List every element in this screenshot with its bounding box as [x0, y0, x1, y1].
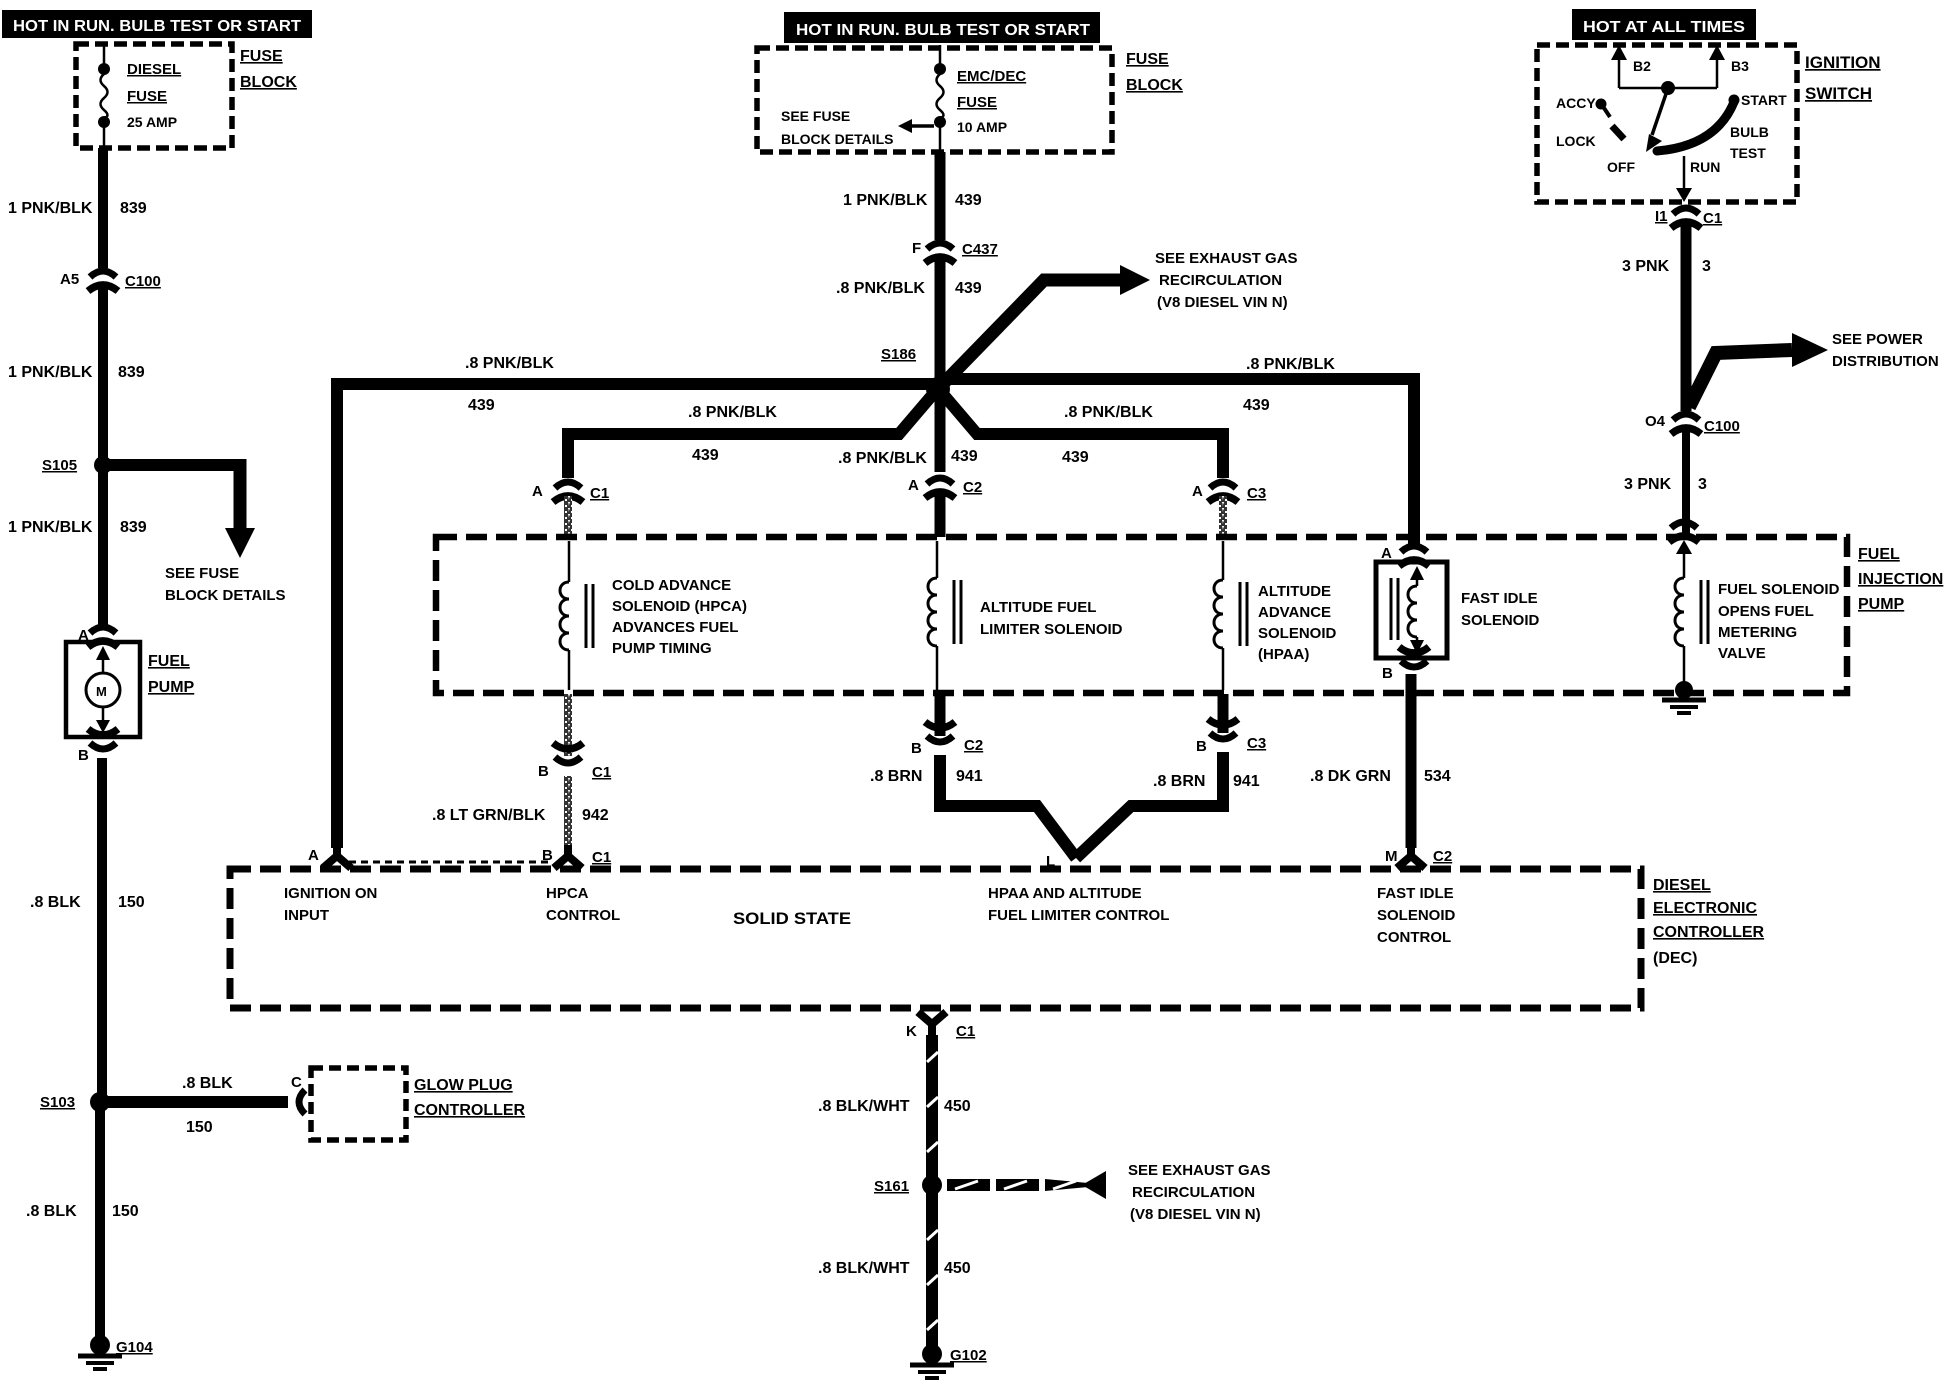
svg-text:1 PNK/BLK: 1 PNK/BLK [8, 364, 93, 381]
label fuel solenoid [1718, 581, 1840, 662]
svg-text:A: A [908, 477, 919, 494]
splice S161 [874, 1175, 942, 1195]
svg-text:HPAA AND ALTITUDE: HPAA AND ALTITUDE [988, 885, 1142, 902]
svg-text:B: B [538, 763, 549, 780]
svg-text:HPCA: HPCA [546, 885, 589, 902]
svg-text:OPENS FUEL: OPENS FUEL [1718, 603, 1814, 620]
label altitude advance solenoid [1258, 583, 1337, 663]
label .8 BLK 150 [26, 1203, 139, 1220]
svg-text:FUEL SOLENOID: FUEL SOLENOID [1718, 581, 1840, 598]
wire S186 down to C2 [935, 389, 946, 472]
fuel pump M1 [66, 642, 140, 737]
connector B C1 (DEC side) [542, 845, 611, 868]
svg-text:DISTRIBUTION: DISTRIBUTION [1832, 353, 1939, 370]
svg-text:.8 PNK/BLK: .8 PNK/BLK [838, 450, 927, 467]
connector A5 C100 [60, 271, 161, 291]
wire B C3 to DEC pin L [1076, 752, 1223, 858]
connector pin B fuel pump [78, 729, 118, 764]
connector A C1 [532, 482, 609, 502]
svg-text:150: 150 [112, 1203, 139, 1220]
svg-text:.8 DK GRN: .8 DK GRN [1310, 768, 1391, 785]
wire K C1 to S161 (BLK/WHT hatched) [926, 1035, 938, 1177]
wire S186 branch to C1 [568, 393, 934, 478]
label DIESEL ELECTRONIC CONTROLLER (DEC) [1653, 877, 1765, 967]
svg-text:439: 439 [1243, 397, 1270, 414]
fuel solenoid feed connector at pump top [1669, 522, 1699, 554]
wire B C1 to DEC (shielded) [564, 776, 572, 846]
svg-text:C1: C1 [592, 849, 611, 866]
svg-text:450: 450 [944, 1098, 971, 1115]
label HPAA AND ALTITUDE FUEL LIMITER CONTROL [988, 885, 1169, 924]
svg-text:B2: B2 [1633, 58, 1651, 74]
svg-text:FUSE: FUSE [127, 88, 167, 105]
label EMC/DEC FUSE 10 AMP [957, 68, 1026, 135]
contact START and bulb test arc [1657, 92, 1787, 161]
svg-text:C1: C1 [1703, 210, 1722, 227]
wire S105 branch to fuse block details arrow [103, 459, 255, 558]
label .8 BLK 150 [30, 894, 145, 911]
connector I1 C1 [1655, 208, 1722, 228]
label C pin and .8 BLK 150 [182, 1074, 302, 1136]
svg-text:.8 PNK/BLK: .8 PNK/BLK [1064, 404, 1153, 421]
svg-text:RECIRCULATION: RECIRCULATION [1159, 272, 1282, 289]
svg-text:BULB: BULB [1730, 124, 1769, 140]
svg-text:3 PNK: 3 PNK [1624, 476, 1672, 493]
wire S186 left run to DEC pin A [337, 384, 938, 848]
svg-text:LIMITER SOLENOID: LIMITER SOLENOID [980, 621, 1123, 638]
svg-text:SEE EXHAUST GAS: SEE EXHAUST GAS [1155, 250, 1298, 267]
svg-text:B: B [1196, 738, 1207, 755]
wire fuse to C437 [935, 152, 946, 240]
cold advance solenoid (HPCA) coil [560, 541, 593, 690]
ground G104 [78, 1335, 153, 1369]
fast idle solenoid box [1376, 562, 1447, 658]
connector A C3 [1192, 482, 1266, 502]
svg-text:941: 941 [956, 768, 983, 785]
svg-text:FUSE: FUSE [240, 48, 283, 65]
svg-text:SEE FUSE: SEE FUSE [165, 565, 239, 582]
svg-text:.8 BLK: .8 BLK [182, 1075, 233, 1092]
svg-text:SEE EXHAUST GAS: SEE EXHAUST GAS [1128, 1162, 1271, 1179]
svg-text:C1: C1 [956, 1023, 975, 1040]
svg-text:S186: S186 [881, 346, 916, 363]
ignition switch wiper arm [1646, 88, 1668, 152]
connector pin B fast idle [1382, 647, 1429, 682]
svg-text:A: A [1192, 483, 1203, 500]
svg-text:1 PNK/BLK: 1 PNK/BLK [843, 192, 928, 209]
svg-text:B: B [78, 747, 89, 764]
label IGNITION SWITCH [1805, 53, 1881, 103]
svg-text:SOLENOID: SOLENOID [1377, 907, 1456, 924]
EMC/DEC fuse symbol [934, 45, 946, 152]
connector A C2 [908, 477, 982, 498]
contact LOCK [1556, 126, 1624, 149]
svg-text:C3: C3 [1247, 735, 1266, 752]
wire HPCA to B C1 (shielded) [564, 694, 572, 756]
svg-text:.8 PNK/BLK: .8 PNK/BLK [465, 355, 554, 372]
wire fuse to C100 [98, 148, 108, 268]
svg-text:439: 439 [955, 192, 982, 209]
svg-text:B3: B3 [1731, 58, 1749, 74]
svg-text:150: 150 [118, 894, 145, 911]
header HOT AT ALL TIMES [1572, 9, 1756, 40]
splice S103 [40, 1092, 110, 1112]
svg-text:1 PNK/BLK: 1 PNK/BLK [8, 200, 93, 217]
svg-text:VALVE: VALVE [1718, 645, 1766, 662]
svg-text:M: M [96, 684, 107, 699]
label .8 PNK/BLK 439 [836, 280, 982, 297]
svg-text:ADVANCE: ADVANCE [1258, 604, 1331, 621]
fuse block (center) dashed box [757, 48, 1112, 152]
svg-text:839: 839 [118, 364, 145, 381]
label .8 LT GRN/BLK 942 [432, 807, 609, 824]
svg-text:M: M [1385, 848, 1398, 865]
label .8 BRN 941 (C3) [1153, 773, 1260, 790]
svg-text:BLOCK: BLOCK [240, 74, 297, 91]
svg-text:O4: O4 [1645, 413, 1666, 430]
svg-text:LOCK: LOCK [1556, 133, 1596, 149]
splice S186 [881, 346, 950, 401]
svg-text:RUN: RUN [1690, 159, 1720, 175]
label 1 PNK/BLK 839 [8, 200, 147, 217]
svg-text:ALTITUDE: ALTITUDE [1258, 583, 1331, 600]
header HOT IN RUN (left) [2, 10, 312, 38]
svg-text:C2: C2 [963, 479, 982, 496]
header HOT IN RUN (center) [784, 12, 1100, 43]
svg-text:C1: C1 [592, 764, 611, 781]
connector O4 C100 [1645, 413, 1740, 435]
svg-text:ACCY: ACCY [1556, 95, 1596, 111]
label .8 PNK/BLK 439 (C1 branch) [688, 404, 777, 464]
svg-text:SOLENOID: SOLENOID [1258, 625, 1337, 642]
svg-text:HOT IN RUN. BULB TEST OR START: HOT IN RUN. BULB TEST OR START [13, 18, 301, 35]
svg-text:F: F [912, 240, 921, 257]
label FAST IDLE SOLENOID CONTROL [1377, 885, 1456, 946]
svg-text:450: 450 [944, 1260, 971, 1277]
ground at fuel solenoid case [1662, 681, 1706, 713]
svg-text:PUMP TIMING: PUMP TIMING [612, 640, 712, 657]
svg-text:DIESEL: DIESEL [1653, 877, 1711, 894]
wire C100 to S105 [98, 288, 108, 460]
svg-text:.8 BLK: .8 BLK [30, 894, 81, 911]
svg-text:.8 PNK/BLK: .8 PNK/BLK [688, 404, 777, 421]
fuel injection pump dashed box [436, 537, 1847, 693]
svg-text:839: 839 [120, 519, 147, 536]
svg-text:C1: C1 [590, 485, 609, 502]
svg-text:SOLENOID (HPCA): SOLENOID (HPCA) [612, 598, 747, 615]
svg-text:G104: G104 [116, 1339, 153, 1356]
svg-text:PUMP: PUMP [148, 679, 195, 696]
svg-text:START: START [1741, 92, 1787, 108]
label FAST IDLE SOLENOID [1461, 590, 1540, 629]
label HPCA CONTROL [546, 885, 620, 924]
svg-text:(HPAA): (HPAA) [1258, 646, 1309, 663]
wire S103 to glow plug controller [100, 1090, 305, 1114]
svg-text:839: 839 [120, 200, 147, 217]
svg-text:A5: A5 [60, 271, 79, 288]
svg-text:.8 PNK/BLK: .8 PNK/BLK [836, 280, 925, 297]
svg-text:PUMP: PUMP [1858, 596, 1905, 613]
fuel solenoid coil [1675, 552, 1708, 688]
label IGNITION ON INPUT [284, 885, 377, 924]
contact ACCY [1556, 95, 1610, 117]
svg-text:(V8 DIESEL VIN N): (V8 DIESEL VIN N) [1157, 294, 1288, 311]
svg-text:.8 BLK/WHT: .8 BLK/WHT [818, 1098, 910, 1115]
DEC pin A flare [308, 845, 351, 868]
splice S105 [42, 456, 112, 474]
label .8 BRN 941 (C2) [870, 768, 983, 785]
ignition switch feed bar and node [1619, 81, 1717, 95]
svg-text:.8 PNK/BLK: .8 PNK/BLK [1246, 356, 1335, 373]
label .8 PNK/BLK 439 (C2 drop) [838, 448, 978, 467]
svg-text:SEE POWER: SEE POWER [1832, 331, 1923, 348]
svg-text:HOT IN RUN. BULB TEST OR START: HOT IN RUN. BULB TEST OR START [796, 22, 1090, 39]
svg-text:C100: C100 [1704, 418, 1740, 435]
svg-text:.8 BLK/WHT: .8 BLK/WHT [818, 1260, 910, 1277]
svg-text:C: C [291, 1074, 302, 1091]
wire branch to power distribution arrow [1689, 333, 1828, 407]
wire S186 right run to fast idle feed [938, 379, 1414, 546]
altitude fuel limiter solenoid coil [928, 541, 961, 690]
glow plug controller dashed box [311, 1068, 406, 1140]
wire C3 into pump (shielded) [1219, 496, 1227, 537]
label FUSE BLOCK (left) [240, 48, 297, 91]
svg-text:SOLENOID: SOLENOID [1461, 612, 1540, 629]
svg-text:BLOCK: BLOCK [1126, 77, 1183, 94]
note SEE EXHAUST GAS RECIRCULATION (top) [1155, 250, 1298, 311]
wire S186 to exhaust gas recirculation arrow [938, 265, 1150, 389]
label FUEL INJECTION PUMP [1858, 546, 1943, 613]
connector face dashed line A to B [349, 861, 548, 864]
svg-text:C2: C2 [1433, 848, 1452, 865]
svg-text:BLOCK DETAILS: BLOCK DETAILS [165, 587, 286, 604]
svg-text:EMC/DEC: EMC/DEC [957, 68, 1026, 85]
fuse block (left) dashed box [76, 44, 232, 148]
label 3 PNK 3 (lower) [1624, 476, 1707, 493]
svg-text:3 PNK: 3 PNK [1622, 258, 1670, 275]
wire S105 to fuel pump [98, 465, 108, 626]
wire C1 into pump (shielded) [564, 496, 572, 537]
wire C437 to S186 [935, 258, 946, 385]
svg-text:FAST IDLE: FAST IDLE [1377, 885, 1454, 902]
svg-text:534: 534 [1424, 768, 1451, 785]
wire HPAA to B C3 [1218, 694, 1229, 733]
svg-text:S105: S105 [42, 457, 77, 474]
svg-text:IGNITION ON: IGNITION ON [284, 885, 377, 902]
wire fast idle B to M C2 [1406, 674, 1417, 848]
svg-text:439: 439 [468, 397, 495, 414]
svg-text:INPUT: INPUT [284, 907, 329, 924]
svg-text:FUEL LIMITER CONTROL: FUEL LIMITER CONTROL [988, 907, 1169, 924]
note SEE POWER DISTRIBUTION [1832, 331, 1939, 370]
svg-text:439: 439 [955, 280, 982, 297]
label .8 PNK/BLK 439 (right run) [1243, 356, 1335, 414]
svg-text:CONTROL: CONTROL [546, 907, 620, 924]
svg-text:.8 BRN: .8 BRN [1153, 773, 1205, 790]
wire altitude limiter to B C2 [935, 694, 946, 736]
svg-text:10 AMP: 10 AMP [957, 119, 1007, 135]
svg-text:G102: G102 [950, 1347, 987, 1364]
DEC dashed box [230, 869, 1641, 1008]
label FUEL PUMP [148, 653, 195, 696]
svg-text:S161: S161 [874, 1178, 909, 1195]
svg-text:C3: C3 [1247, 485, 1266, 502]
svg-text:CONTROLLER: CONTROLLER [414, 1102, 526, 1119]
label 1 PNK/BLK 439 [843, 192, 982, 209]
connector B C3 [1196, 719, 1266, 755]
ignition switch pin B2 arrow [1611, 45, 1651, 88]
label DIESEL FUSE 25 AMP [127, 61, 181, 130]
label 1 PNK/BLK 839 [8, 519, 147, 536]
svg-text:CONTROL: CONTROL [1377, 929, 1451, 946]
svg-text:FAST IDLE: FAST IDLE [1461, 590, 1538, 607]
svg-text:I1: I1 [1655, 208, 1668, 225]
svg-text:B: B [1382, 665, 1393, 682]
note SEE FUSE BLOCK DETAILS (center) [781, 108, 894, 147]
label FUSE BLOCK (center) [1126, 51, 1183, 94]
svg-text:439: 439 [1062, 449, 1089, 466]
label .8 PNK/BLK 439 (C3 branch) [1062, 404, 1153, 466]
svg-text:FUEL: FUEL [148, 653, 190, 670]
svg-text:439: 439 [692, 447, 719, 464]
svg-text:(V8 DIESEL VIN N): (V8 DIESEL VIN N) [1130, 1206, 1261, 1223]
label cold advance solenoid [612, 577, 747, 657]
svg-text:IGNITION: IGNITION [1805, 53, 1881, 72]
svg-text:A: A [308, 847, 319, 864]
label .8 BLK/WHT 450 (upper) [818, 1098, 971, 1115]
svg-text:.8 LT GRN/BLK: .8 LT GRN/BLK [432, 807, 546, 824]
wire S161 to exhaust gas recirculation (hatched arrow) [947, 1171, 1106, 1199]
svg-text:3: 3 [1698, 476, 1707, 493]
svg-text:C437: C437 [962, 241, 998, 258]
svg-text:941: 941 [1233, 773, 1260, 790]
wire S161 to G102 (BLK/WHT hatched) [926, 1192, 938, 1348]
svg-text:COLD ADVANCE: COLD ADVANCE [612, 577, 731, 594]
svg-text:SOLID STATE: SOLID STATE [733, 909, 851, 928]
svg-text:25 AMP: 25 AMP [127, 114, 177, 130]
svg-text:DIESEL: DIESEL [127, 61, 181, 78]
svg-text:GLOW PLUG: GLOW PLUG [414, 1077, 513, 1094]
connector K C1 [906, 1012, 975, 1040]
svg-text:METERING: METERING [1718, 624, 1797, 641]
svg-text:BLOCK DETAILS: BLOCK DETAILS [781, 131, 894, 147]
connector M C2 [1385, 845, 1452, 868]
ignition switch dashed box [1537, 45, 1797, 202]
svg-text:CONTROLLER: CONTROLLER [1653, 924, 1765, 941]
wire S103 to G104 [95, 1102, 105, 1344]
label .8 DK GRN 534 [1310, 768, 1451, 785]
altitude advance solenoid (HPAA) coil [1214, 541, 1247, 690]
svg-text:S103: S103 [40, 1094, 75, 1111]
svg-text:ADVANCES FUEL: ADVANCES FUEL [612, 619, 738, 636]
svg-text:A: A [1381, 545, 1392, 562]
ignition switch pin B3 arrow [1709, 45, 1749, 88]
wire I1 to C100 [1681, 222, 1692, 411]
svg-text:FUEL: FUEL [1858, 546, 1900, 563]
svg-text:TEST: TEST [1730, 145, 1766, 161]
svg-text:SWITCH: SWITCH [1805, 84, 1872, 103]
connector pin A fast idle [1381, 545, 1429, 566]
svg-text:ELECTRONIC: ELECTRONIC [1653, 900, 1757, 917]
svg-text:OFF: OFF [1607, 159, 1635, 175]
svg-text:.8 BLK: .8 BLK [26, 1203, 77, 1220]
svg-text:439: 439 [951, 448, 978, 465]
svg-text:942: 942 [582, 807, 609, 824]
svg-text:ALTITUDE FUEL: ALTITUDE FUEL [980, 599, 1096, 616]
wire S186 branch to C3 [942, 393, 1223, 478]
connector pin A fuel pump [78, 627, 118, 647]
note SEE FUSE BLOCK DETAILS (left) [165, 565, 286, 604]
svg-text:INJECTION: INJECTION [1858, 571, 1943, 588]
svg-text:FUSE: FUSE [957, 94, 997, 111]
diesel fuse F1 symbol [98, 44, 110, 148]
svg-text:FUSE: FUSE [1126, 51, 1169, 68]
connector B C2 [911, 722, 983, 757]
label altitude fuel limiter solenoid [980, 599, 1123, 638]
svg-text:HOT AT ALL TIMES: HOT AT ALL TIMES [1583, 19, 1745, 36]
svg-text:3: 3 [1702, 258, 1711, 275]
run output arrow [1676, 156, 1692, 202]
label .8 BLK/WHT 450 (lower) [818, 1260, 971, 1277]
svg-text:1 PNK/BLK: 1 PNK/BLK [8, 519, 93, 536]
svg-text:RECIRCULATION: RECIRCULATION [1132, 1184, 1255, 1201]
svg-text:.8 BRN: .8 BRN [870, 768, 922, 785]
svg-text:SEE FUSE: SEE FUSE [781, 108, 850, 124]
svg-text:150: 150 [186, 1119, 213, 1136]
svg-text:C100: C100 [125, 273, 161, 290]
connector B C1 (pump side) [538, 743, 611, 781]
label 1 PNK/BLK 839 [8, 364, 145, 381]
wire C100 to fuel solenoid [1682, 428, 1690, 536]
ground G102 [910, 1344, 987, 1378]
arrow to SEE FUSE BLOCK DETAILS (center) [898, 119, 934, 133]
svg-text:A: A [532, 483, 543, 500]
label GLOW PLUG CONTROLLER [414, 1077, 526, 1119]
label 3 PNK 3 [1622, 258, 1711, 275]
svg-text:K: K [906, 1023, 917, 1040]
label .8 PNK/BLK 439 (left run) [465, 355, 554, 414]
wire C2 into pump [935, 492, 946, 537]
wire fuel pump B to S103 [97, 758, 107, 1098]
svg-text:(DEC): (DEC) [1653, 950, 1697, 967]
wire B C2 to DEC pin L [940, 755, 1076, 858]
svg-text:C2: C2 [964, 737, 983, 754]
note SEE EXHAUST GAS RECIRCULATION (bottom) [1128, 1162, 1271, 1223]
svg-text:B: B [911, 740, 922, 757]
connector F C437 [912, 240, 998, 263]
